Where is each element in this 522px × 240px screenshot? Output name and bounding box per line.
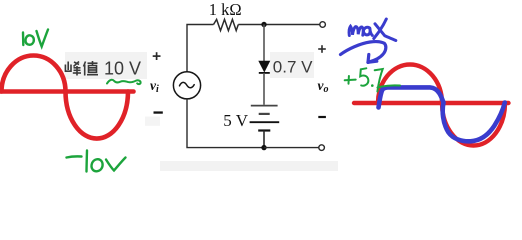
terminal: top-right open circle: [320, 22, 326, 28]
battery 5V: bottom short plate: [258, 129, 270, 131]
battery 5V: lower long plate: [250, 121, 280, 123]
ac source Vs (circle with sine): [173, 72, 200, 99]
input waveform baseline: [0, 89, 134, 94]
annotation max (blue handwriting): [349, 19, 396, 41]
label: 峰值 character 2 (drawn strokes): [84, 61, 99, 76]
wire: source bottom to bottom-left corner to bottom junction: [187, 99, 262, 148]
svg-text:5 V: 5 V: [223, 111, 248, 130]
wire: resistor to top-right terminal: [238, 24, 319, 26]
annotation 5.7 (green handwriting): [345, 68, 400, 91]
output waveform baseline: [354, 101, 509, 105]
input waveform positive half-cycle: [2, 56, 66, 92]
wire: diode to battery: [263, 73, 265, 105]
wire: top junction down to diode: [263, 25, 265, 62]
annotation -10V (green handwriting, bottom left): [67, 151, 126, 172]
label: 峰值 character 1 (drawn strokes): [65, 62, 81, 76]
output waveform positive half (red): [378, 65, 442, 104]
diode D1 cathode bar: [259, 72, 270, 74]
svg-text:0.7 V: 0.7 V: [273, 57, 313, 76]
output waveform negative half (red): [442, 103, 505, 146]
battery 5V: top long plate: [251, 105, 278, 107]
annotation squiggle under peak-value label (green): [107, 80, 141, 84]
battery 5V: upper short plate: [259, 113, 270, 115]
label: vi plus terminal: [153, 52, 161, 60]
diode D1 (anode triangle): [259, 61, 270, 72]
node: bottom junction dot: [261, 145, 266, 150]
output waveform vo (red input reference): [354, 65, 509, 146]
annotation 10V (green handwriting, top left): [23, 30, 48, 47]
svg-text:1 kΩ: 1 kΩ: [209, 0, 242, 19]
label background box: small box under vi minus: [145, 117, 160, 126]
resistor 1 kΩ (zigzag): [214, 19, 239, 30]
label background box: bottom bar: [160, 161, 338, 171]
label: vo minus terminal: [318, 116, 326, 118]
label: vo plus terminal: [318, 45, 326, 53]
input sine waveform vi (red): [0, 56, 134, 139]
node: top junction dot: [261, 22, 266, 27]
label: vi minus terminal: [154, 111, 163, 113]
svg-text:10 V: 10 V: [104, 59, 141, 79]
wire: battery to bottom junction: [263, 131, 265, 148]
terminal: bottom-right open circle: [319, 145, 325, 151]
label background box: 0.7 V annotation: [270, 52, 314, 78]
output clipped waveform (blue): [379, 87, 505, 141]
label background box: peak value annotation: [65, 52, 147, 79]
input waveform negative half-cycle: [66, 92, 129, 139]
wire: bottom junction to bottom-right terminal: [264, 147, 319, 149]
wire: top-left corner to resistor: [187, 25, 214, 72]
annotation arrow to clipping level (blue handwriting): [341, 42, 386, 63]
